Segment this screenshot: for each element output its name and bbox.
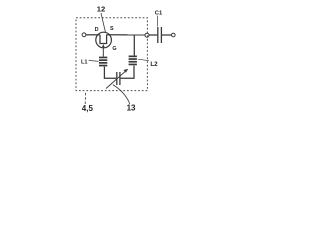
wire: output node to C1 xyxy=(149,34,157,36)
transistor 12 body circle xyxy=(96,32,112,48)
capacitor C1 plates xyxy=(157,27,159,43)
inductor L1 coil xyxy=(99,57,107,67)
variable capacitor 13 plates xyxy=(116,72,118,85)
svg-text:L1: L1 xyxy=(81,60,88,66)
svg-text:13: 13 xyxy=(127,104,136,113)
leader line from L1 to coil xyxy=(89,60,99,61)
transistor channel U (D-S path) xyxy=(100,35,107,44)
node: output terminal on box edge xyxy=(145,33,149,37)
dashed leader from 4,5 to box corner xyxy=(84,91,86,104)
gate lead with arrowhead xyxy=(102,47,104,57)
svg-text:C1: C1 xyxy=(155,10,163,16)
wire: junction drop to L2 top xyxy=(133,35,135,56)
svg-text:4,5: 4,5 xyxy=(82,104,94,113)
wire: L1 bottom to rail xyxy=(104,67,116,79)
svg-text:S: S xyxy=(110,26,114,32)
wire: rail from capacitor to L2 bottom xyxy=(120,66,134,79)
leader line from 13 to variable capacitor xyxy=(113,85,130,104)
leader line from L2 label to coil xyxy=(138,59,149,61)
dashed enclosure box 4,5 xyxy=(76,18,147,91)
leader line from 12 to transistor xyxy=(101,13,106,33)
wire: transistor S to output node xyxy=(107,34,146,36)
svg-text:G: G xyxy=(112,46,116,52)
wire: input terminal to transistor D xyxy=(86,34,100,36)
node: right output terminal xyxy=(172,33,176,37)
svg-text:L2: L2 xyxy=(150,61,158,68)
node: input terminal (left, D side) xyxy=(82,33,86,37)
wire: C1 to right terminal xyxy=(162,34,172,36)
svg-text:D: D xyxy=(95,27,99,33)
variable capacitor arrow xyxy=(106,71,126,89)
inductor L2 coil xyxy=(129,56,137,66)
svg-text:12: 12 xyxy=(97,5,105,14)
leader line from C1 to plate xyxy=(157,16,159,27)
